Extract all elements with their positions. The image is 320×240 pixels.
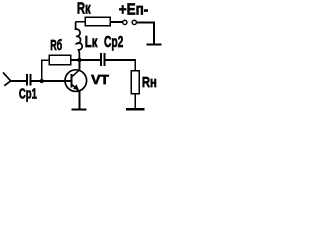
resistor Rb xyxy=(49,55,71,64)
terminal + xyxy=(123,20,127,24)
resistor Rk xyxy=(85,17,110,26)
terminal - xyxy=(132,20,136,24)
wire Cp2 to Rn xyxy=(105,60,135,71)
ground at - terminal xyxy=(147,43,162,45)
capacitor Cp2 xyxy=(100,53,105,66)
svg-text:VT: VT xyxy=(91,72,109,87)
ground under Rn xyxy=(126,108,145,110)
svg-text:Rб: Rб xyxy=(50,38,62,54)
transistor base bar xyxy=(70,74,72,87)
wire Lk top to Rk xyxy=(76,21,85,23)
input source chevron xyxy=(3,72,11,85)
resistor Rn xyxy=(131,71,139,94)
wire collector node down to transistor xyxy=(78,60,80,70)
wire Rk to + terminal xyxy=(110,21,122,23)
capacitor Cp1 xyxy=(26,74,32,85)
svg-text:Ср1: Ср1 xyxy=(19,86,37,103)
inductor Lk xyxy=(76,22,83,58)
wire input to Cp1 xyxy=(11,80,26,82)
ground under emitter xyxy=(72,108,87,110)
transistor emitter arrow xyxy=(73,84,79,90)
wire - terminal to ground xyxy=(137,22,154,43)
wire collector node to Cp2 xyxy=(79,59,100,61)
wire base node up to Rb xyxy=(42,60,49,81)
svg-text:Rк: Rк xyxy=(77,0,91,17)
wire emitter to ground xyxy=(78,92,80,109)
wire Cp1 to transistor base xyxy=(32,80,72,82)
wire Rn to ground xyxy=(134,94,136,109)
svg-text:Rн: Rн xyxy=(142,74,157,91)
svg-text:Ср2: Ср2 xyxy=(104,34,123,51)
transistor VT circle xyxy=(65,70,87,92)
transistor collector lead xyxy=(72,70,79,77)
transistor emitter lead xyxy=(72,85,79,92)
svg-text:+Еп-: +Еп- xyxy=(119,2,149,19)
node base junction xyxy=(40,79,44,83)
svg-text:Lк: Lк xyxy=(85,34,98,51)
node collector junction xyxy=(77,58,81,62)
wire Rb to collector node xyxy=(71,59,80,61)
